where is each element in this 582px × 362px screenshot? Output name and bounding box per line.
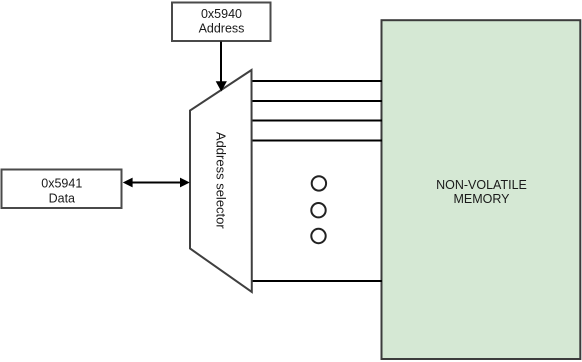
svg-text:0x5940: 0x5940 <box>201 7 242 21</box>
svg-text:Data: Data <box>49 192 75 206</box>
svg-text:Address: Address <box>199 22 245 36</box>
svg-text:MEMORY: MEMORY <box>453 192 510 206</box>
svg-text:0x5941: 0x5941 <box>41 177 82 191</box>
svg-text:Address selector: Address selector <box>214 132 229 229</box>
svg-text:NON-VOLATILE: NON-VOLATILE <box>436 178 527 192</box>
